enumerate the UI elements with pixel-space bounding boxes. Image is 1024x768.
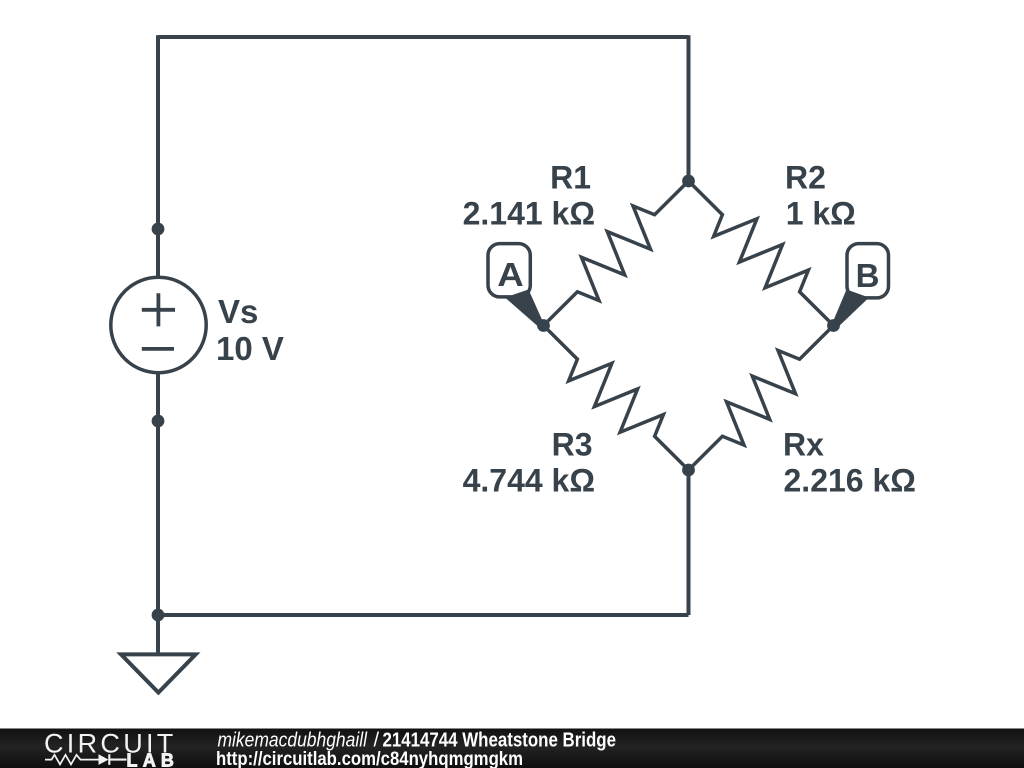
ground	[121, 654, 196, 692]
wire right lower vertical	[687, 470, 691, 615]
junction dot top node	[682, 175, 695, 188]
svg-text:1 kΩ: 1 kΩ	[786, 195, 856, 231]
junction dot source bottom terminal	[152, 415, 165, 428]
svg-text:http://circuitlab.com/c84nyhqm: http://circuitlab.com/c84nyhqmgmgkm	[216, 749, 523, 768]
svg-text:R3: R3	[552, 427, 593, 463]
junction dot left node	[537, 319, 550, 332]
voltage source Vs circle	[111, 277, 206, 372]
logo diode glyph	[99, 754, 109, 765]
junction dot right node	[827, 319, 840, 332]
svg-text:Rx: Rx	[783, 427, 824, 463]
voltage source minus sign	[142, 347, 174, 351]
resistor R1	[544, 181, 689, 326]
resistor R3	[544, 326, 689, 471]
svg-text:B: B	[856, 257, 880, 294]
junction dot ground tee	[152, 609, 165, 622]
resistor R2	[689, 181, 834, 326]
resistor Rx	[689, 326, 834, 471]
svg-text:2.216 kΩ: 2.216 kΩ	[784, 463, 916, 499]
svg-text:A: A	[497, 256, 524, 293]
logo resistor glyph	[45, 755, 99, 765]
node B flag tail	[831, 290, 870, 330]
node A flag box	[488, 244, 530, 297]
wire left upper vertical	[156, 35, 160, 277]
node A flag tail	[505, 290, 546, 330]
node B flag box	[847, 244, 889, 298]
junction dot source top terminal	[152, 223, 165, 236]
junction dot bottom node	[682, 464, 695, 477]
voltage source plus sign	[142, 293, 175, 326]
wire right upper vertical	[687, 35, 691, 181]
wire top	[158, 35, 689, 39]
footer bar	[0, 729, 1024, 768]
wire bottom	[158, 613, 689, 617]
svg-text:4.744 kΩ: 4.744 kΩ	[463, 463, 595, 499]
svg-text:LAB: LAB	[127, 751, 180, 768]
svg-text:R1: R1	[550, 160, 591, 196]
svg-text:10 V: 10 V	[216, 330, 284, 367]
svg-text:Vs: Vs	[218, 293, 258, 330]
svg-text:2.141 kΩ: 2.141 kΩ	[463, 195, 595, 231]
svg-text:R2: R2	[785, 160, 826, 196]
wire left lower vertical	[156, 374, 160, 654]
